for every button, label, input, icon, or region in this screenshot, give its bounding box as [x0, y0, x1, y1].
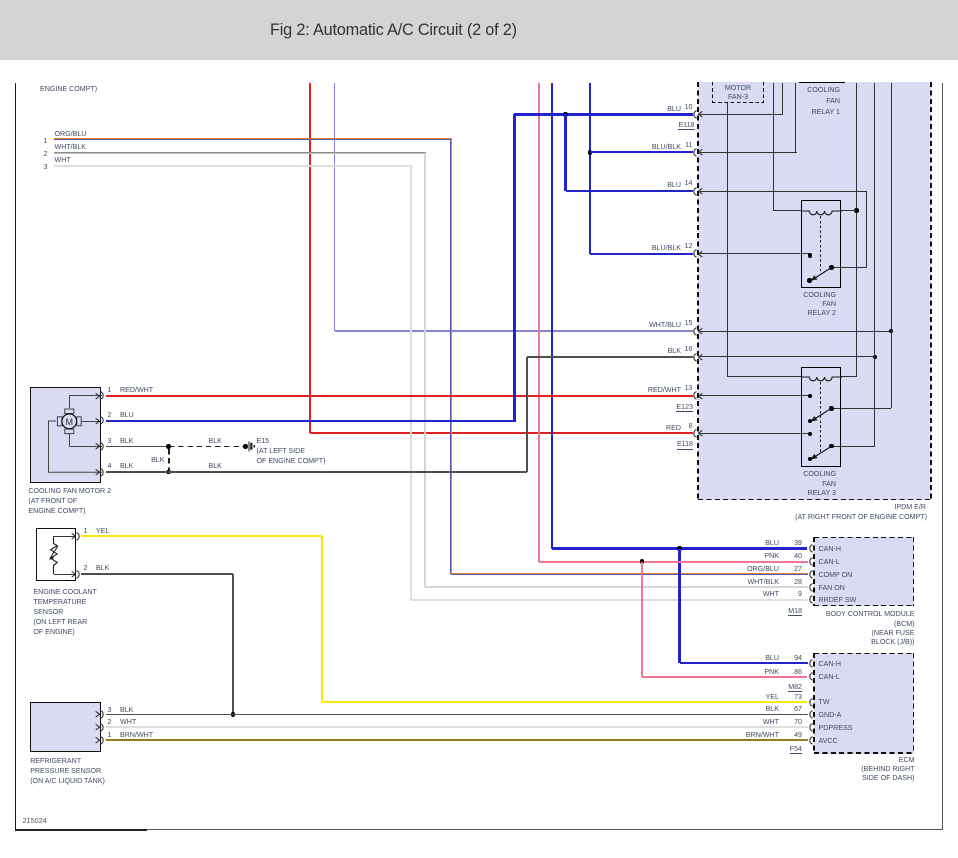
IPDM wire pin16 stub	[700, 356, 875, 357]
label BLK wire4 mid	[209, 461, 222, 471]
BCM pin 28 connector arc	[806, 583, 815, 592]
BCM pin number 27	[782, 564, 802, 574]
wire WHT/BLU vertical from top	[334, 83, 336, 331]
wire BLU branch vertical	[564, 114, 566, 191]
wire BLU CAN-H to BCM	[552, 547, 807, 549]
note ENGINE COMPT	[40, 84, 97, 94]
relay 2 switch pivot	[829, 265, 834, 270]
ECM pin number 86	[782, 667, 802, 677]
title text	[270, 21, 517, 40]
IPDM wire pin11 stub	[700, 152, 797, 153]
ECM pin number 73	[782, 692, 802, 702]
IPDM wire pin12 stub	[700, 253, 810, 254]
junction dot BLK refrigerant	[231, 712, 236, 717]
BCM signal CAN-L	[819, 557, 840, 567]
IPDM pin 15 arrow	[698, 328, 703, 335]
refrig pin1 arrow	[95, 737, 100, 744]
relay 3 actuator dashed line	[820, 382, 821, 453]
IPDM vertical pin16 node	[874, 83, 875, 446]
pin number 10	[673, 102, 693, 112]
wire WHT horizontal	[54, 165, 412, 167]
wire YEL horizontal	[81, 535, 322, 537]
ground bolt E15	[248, 441, 256, 452]
wire BLK ECT vertical	[232, 574, 234, 715]
wire BLU motor vertical	[513, 114, 515, 420]
motor fan-3 label	[708, 83, 768, 93]
motor internal wire pin1	[66, 393, 102, 409]
cooling fan motor 2 caption	[28, 486, 158, 516]
IPDM vertical pin14 to relay2 switch	[866, 191, 867, 268]
motor pin1 number	[108, 385, 112, 395]
junction dot BLK E15	[243, 444, 248, 449]
ECT internal wire pin1	[54, 536, 76, 537]
wire BLK motor4 solid	[106, 471, 527, 473]
relay 2 contact from pin12	[808, 253, 813, 258]
refrig pin3 arrow	[95, 711, 100, 718]
BCM pin number 9	[782, 589, 802, 599]
label BLU/BLK 12	[591, 243, 681, 253]
wire BLK to pin16	[527, 356, 693, 358]
IPDM pin 13 arrow	[698, 393, 703, 400]
label PNK 86 at ECM	[689, 667, 779, 677]
refrig pin3 connector arc	[98, 710, 107, 719]
BCM pin number 28	[782, 577, 802, 587]
wire BLK motor3 solid	[106, 446, 169, 448]
junction dot relay2 coil node	[854, 208, 859, 213]
refrigerant sensor caption	[30, 756, 150, 786]
refrig pin1 connector arc	[98, 736, 107, 745]
IPDM pin 11 connector arc	[690, 148, 699, 157]
junction dot pin15 node	[889, 329, 894, 334]
motor pin3 number	[108, 436, 112, 446]
cooling fan relay 2 label 2	[746, 299, 836, 309]
label WHT	[55, 155, 71, 165]
IPDM wire relay3 upper switch feed	[831, 408, 891, 409]
BCM box fill	[814, 537, 915, 607]
wire WHT vertical	[410, 166, 412, 600]
ECT pin1 connector arc	[74, 532, 83, 541]
wire PNK CAN-L to BCM	[539, 561, 808, 563]
wire WHT/BLK vertical	[424, 153, 426, 588]
label WHT/BLK 28 at BCM	[689, 577, 779, 587]
label WHT 9 at BCM	[689, 589, 779, 599]
wire PNK CAN-L to ECM	[642, 676, 808, 678]
motor pin1 arrow	[95, 393, 100, 400]
motor pin2 number	[108, 410, 112, 420]
wire ORG/BLU to BCM	[451, 573, 808, 575]
frame right border	[942, 83, 943, 830]
pin 2 number	[16, 149, 76, 159]
IPDM E/R label	[836, 502, 926, 512]
ECM signal PDPRESS	[819, 723, 853, 733]
ECT pin1 arrow	[71, 533, 76, 540]
ECM signal TW	[819, 697, 830, 707]
ECM dashed border top	[814, 653, 915, 655]
refrig pin2 arrow	[95, 724, 100, 731]
BCM dashed border left	[813, 537, 815, 607]
BCM dashed border right	[913, 537, 915, 607]
IPDM vertical to pin11	[795, 83, 796, 152]
ECT pin1 number	[84, 526, 88, 536]
label BRN/WHT 49 at ECM	[689, 730, 779, 740]
label YEL	[96, 526, 109, 536]
refrig pin2 number	[108, 717, 112, 727]
IPDM pin 16 arrow	[698, 354, 703, 361]
motor pin3 arrow	[95, 443, 100, 450]
IPDM wire pin13 stub	[700, 395, 810, 396]
figure number 215024	[23, 816, 47, 826]
motor pin2 connector arc	[98, 416, 107, 425]
label M82	[712, 682, 802, 692]
IPDM vertical pin15 node	[891, 83, 892, 408]
label F54	[712, 744, 802, 754]
label YEL 73 at ECM	[689, 692, 779, 702]
motor pin4 connector arc	[98, 468, 107, 477]
IPDM vertical motor fan-3 feed	[727, 103, 728, 377]
cooling fan relay 2 box	[801, 200, 842, 288]
wire BLK dashed to E15	[169, 446, 246, 448]
pin number 8	[673, 421, 693, 431]
label WHT 70 at ECM	[689, 717, 779, 727]
relay 3 lower blade end dot	[808, 457, 813, 462]
ECM pin 73 connector arc	[806, 698, 815, 707]
pin number 13	[673, 383, 693, 393]
IPDM pin 11 arrow	[698, 149, 703, 156]
ECM box fill	[814, 653, 915, 754]
IPDM wire relay3 lower switch feed	[831, 446, 875, 447]
motor symbol M	[55, 407, 84, 436]
relay 2 coil	[801, 210, 842, 217]
label E118 under pin8	[603, 439, 693, 449]
junction dot pin16 node	[873, 355, 878, 360]
cooling fan relay 3 label	[746, 469, 836, 479]
ECM pin number 49	[782, 730, 802, 740]
label BLK 16	[591, 346, 681, 356]
pin 1 number	[16, 136, 76, 146]
pin number 14	[673, 178, 693, 188]
IPDM wire pin14 stub	[700, 191, 867, 192]
ECM pin 49 connector arc	[806, 736, 815, 745]
label PNK 40 at BCM	[689, 551, 779, 561]
wire BLU to pin14	[566, 190, 694, 192]
cooling fan relay 3 box	[801, 367, 842, 467]
label E15	[257, 436, 270, 446]
wire RED to pin8	[310, 432, 694, 434]
label BLU 14	[591, 180, 681, 190]
ECM pin 94 connector arc	[806, 659, 815, 668]
wire BLU/BLK to pin11	[590, 151, 693, 153]
wire PNK CAN-L vertical from top	[538, 83, 540, 562]
frame bottom border dark segment	[15, 829, 147, 831]
cooling fan relay 1 box bottom edge	[799, 82, 845, 83]
wire BLK ECT horizontal	[81, 573, 233, 575]
IPDM wire relay2 coil left	[774, 210, 801, 211]
pin number 16	[673, 344, 693, 354]
IPDM wire pin15 stub	[700, 331, 891, 332]
BCM signal FAN ON	[819, 583, 845, 593]
refrigerant pressure sensor box	[30, 702, 101, 752]
relay 3 lower switch blade	[806, 443, 834, 463]
wire YEL to ECM	[322, 701, 808, 703]
junction dot CAN-L	[640, 559, 645, 564]
ECT pin2 connector arc	[74, 570, 83, 579]
wire WHT to BCM	[411, 599, 808, 601]
pin number 15	[673, 318, 693, 328]
BCM signal RRDEF SW	[819, 595, 857, 605]
ECT pin2 arrow	[71, 571, 76, 578]
junction dot BLK wire4	[166, 470, 171, 475]
BCM pin 27 connector arc	[806, 570, 815, 579]
BCM pin 40 connector arc	[806, 557, 815, 566]
motor fan-3 label 2	[708, 92, 768, 102]
cooling fan relay 2 label 3	[746, 308, 836, 318]
BCM signal COMP ON	[819, 570, 853, 580]
refrig pin2 connector arc	[98, 723, 107, 732]
wire BLK vertical to pin16	[526, 357, 528, 472]
wire BLK dashed vertical	[168, 449, 170, 470]
IPDM pin 15 connector arc	[690, 327, 699, 336]
label BLK ECT	[96, 563, 109, 573]
IPDM pin 13 connector arc	[690, 391, 699, 400]
refrig pin1 number	[108, 730, 112, 740]
BCM caption	[795, 610, 915, 648]
motor pin1 connector arc	[98, 391, 107, 400]
thermistor symbol	[46, 533, 63, 578]
ECT pin2 number	[84, 563, 88, 573]
wire WHT/BLK horizontal	[54, 152, 426, 155]
relay 3 upper switch pivot	[829, 406, 834, 411]
ECM pin 86 connector arc	[806, 672, 815, 681]
IPDM pin 8 connector arc	[690, 429, 699, 438]
wire WHT/BLU to pin15	[335, 330, 694, 332]
cooling fan relay 3 label 3	[746, 488, 836, 498]
motor fan-3 dashed box left	[712, 82, 714, 103]
ECM pin number 67	[782, 704, 802, 714]
label E15 location	[257, 446, 367, 466]
wire BRN/WHT refrig to ECM	[106, 739, 808, 741]
label RED/WHT 13	[591, 385, 681, 395]
BCM dashed border bottom	[814, 605, 915, 607]
label E118 under pin10	[605, 120, 695, 130]
label BLU 39 at BCM	[689, 538, 779, 548]
IPDM wire pin8 stub	[700, 433, 810, 434]
IPDM E/R dashed border bottom	[698, 499, 932, 501]
label BLU 10	[591, 104, 681, 114]
IPDM pin 12 connector arc	[690, 249, 699, 258]
wire BLU CAN-H vertical branch	[678, 549, 680, 664]
BCM pin 9 connector arc	[806, 595, 815, 604]
label BRN/WHT refrig	[120, 730, 153, 740]
cooling fan relay 1 label	[750, 85, 840, 95]
relay 2 actuator dashed line	[820, 216, 821, 271]
IPDM E/R location label	[757, 512, 927, 522]
page header bar	[0, 0, 958, 60]
wire BLU to pin10	[514, 113, 693, 115]
label ORG/BLU 27 at BCM	[689, 564, 779, 574]
label ORG/BLU	[55, 129, 87, 139]
IPDM E/R dashed border right	[930, 82, 932, 500]
label BLK motor4	[120, 461, 133, 471]
wire WHT refrig to ECM	[106, 726, 808, 728]
motor internal wire pin4	[44, 417, 102, 474]
label WHT/BLK	[55, 142, 87, 152]
relay 2 switch blade	[806, 264, 834, 284]
wire ORG/BLU horizontal	[54, 138, 453, 140]
relay 2 blade end dot	[807, 278, 812, 283]
IPDM pin 14 connector arc	[690, 187, 699, 196]
motor pin4 number	[108, 461, 112, 471]
junction dot CAN-H	[677, 546, 682, 551]
motor pin3 connector arc	[98, 442, 107, 451]
IPDM E/R box fill	[698, 82, 931, 500]
cooling fan relay 2 label	[746, 290, 836, 300]
relay 3 middle contact from pin8	[808, 432, 813, 437]
junction dot BLU/BLK pin11	[588, 150, 593, 155]
BCM dashed border top	[814, 537, 915, 539]
frame left border	[15, 83, 17, 831]
BCM pin number 40	[782, 551, 802, 561]
cooling fan relay 3 label 2	[746, 479, 836, 489]
label BLK vertical segment	[135, 455, 165, 465]
IPDM vertical relay2 coil feed	[773, 83, 774, 211]
wire BLU CAN-H vertical from top	[551, 83, 553, 549]
junction dot BLK E15 left	[166, 444, 171, 449]
IPDM vertical coil common	[856, 83, 857, 377]
IPDM wire relay2 switch feed	[831, 267, 866, 268]
label RED/WHT	[120, 385, 153, 395]
cooling fan motor 2 box fill	[30, 387, 101, 483]
motor fan-3 dashed box right	[763, 82, 765, 103]
ECM caption	[795, 756, 915, 784]
pin number 11	[673, 140, 693, 150]
BCM signal CAN-H	[819, 544, 841, 554]
wire BLK refrig to ECM	[106, 714, 808, 716]
wire BLU/BLK vertical from top	[589, 83, 591, 254]
IPDM pin 16 connector arc	[690, 353, 699, 362]
label RED 8	[591, 423, 681, 433]
ECM signal CAN-H	[819, 659, 841, 669]
label BLK dashed segment	[209, 436, 222, 446]
motor pin4 arrow	[95, 469, 100, 476]
relay 3 upper contact from pin13	[808, 394, 813, 399]
IPDM pin 10 arrow	[698, 111, 703, 118]
IPDM wire relay3 coil right	[841, 376, 856, 377]
ECM signal AVCC	[819, 736, 838, 746]
ECM dashed border left	[813, 653, 815, 754]
wire YEL vertical	[321, 536, 323, 702]
label WHT refrig	[120, 717, 136, 727]
relay 3 upper blade end dot	[808, 419, 813, 424]
IPDM pin 8 arrow	[698, 430, 703, 437]
pin number 12	[673, 241, 693, 251]
ECT sensor box	[36, 528, 77, 581]
label WHT/BLU 15	[591, 320, 681, 330]
frame bottom border	[15, 829, 942, 830]
label BLU 94 at ECM	[689, 653, 779, 663]
ECM pin number 70	[782, 717, 802, 727]
cooling fan relay 1 label 2	[750, 96, 840, 106]
motor internal wire pin3	[66, 433, 102, 448]
IPDM pin 10 connector arc	[690, 110, 699, 119]
wire PNK CAN-L vertical branch	[641, 562, 643, 677]
IPDM wire pin10 stub	[700, 114, 783, 115]
relay 3 upper switch blade	[806, 405, 834, 425]
motor internal wire pin2	[81, 421, 100, 422]
ECM dashed border bottom	[814, 752, 915, 754]
IPDM vertical to pin10	[782, 83, 783, 114]
IPDM pin 12 arrow	[698, 251, 703, 258]
ECT internal wire pin2	[54, 574, 76, 575]
motor fan-3 dashed box bottom	[712, 102, 764, 104]
ECM pin 67 connector arc	[806, 710, 815, 719]
ECM pin 70 connector arc	[806, 723, 815, 732]
label BLK motor3	[120, 436, 133, 446]
relay 3 lower switch pivot	[829, 444, 834, 449]
ECT caption	[33, 587, 133, 637]
ECM signal CAN-L	[819, 672, 840, 682]
wire RED vertical from top	[309, 83, 311, 433]
pin 3 number	[16, 162, 76, 172]
label BLK 67 at ECM	[689, 704, 779, 714]
wire BLU motor horizontal	[106, 420, 516, 422]
wire BLU/BLK to pin12	[590, 253, 693, 255]
IPDM wire relay2 coil right	[841, 210, 856, 211]
label M18	[712, 606, 802, 616]
motor pin2 arrow	[95, 418, 100, 425]
BCM pin number 39	[782, 538, 802, 548]
wire WHT/BLK to BCM	[425, 586, 808, 588]
IPDM pin 14 arrow	[698, 188, 703, 195]
label BLU/BLK 11	[591, 142, 681, 152]
cooling fan relay 1 label 3	[750, 107, 840, 117]
ECM dashed border right	[913, 653, 915, 754]
refrig pin3 number	[108, 705, 112, 715]
IPDM wire motor fan-3 to relay3 coil	[727, 376, 800, 377]
wire RED/WHT to pin13	[106, 395, 693, 397]
junction dot BLU14 branch	[563, 112, 568, 117]
wire BLU CAN-H to ECM	[680, 662, 808, 664]
IPDM E/R dashed border left	[697, 82, 699, 500]
label BLK refrig	[120, 705, 133, 715]
ECM pin number 94	[782, 653, 802, 663]
label BLU motor	[120, 410, 134, 420]
wire ORG/BLU vertical	[450, 139, 452, 574]
label E123 under pin13	[603, 402, 693, 412]
ECM signal GND-A	[819, 710, 842, 720]
BCM pin 39 connector arc	[806, 544, 815, 553]
relay 3 coil	[801, 376, 842, 383]
